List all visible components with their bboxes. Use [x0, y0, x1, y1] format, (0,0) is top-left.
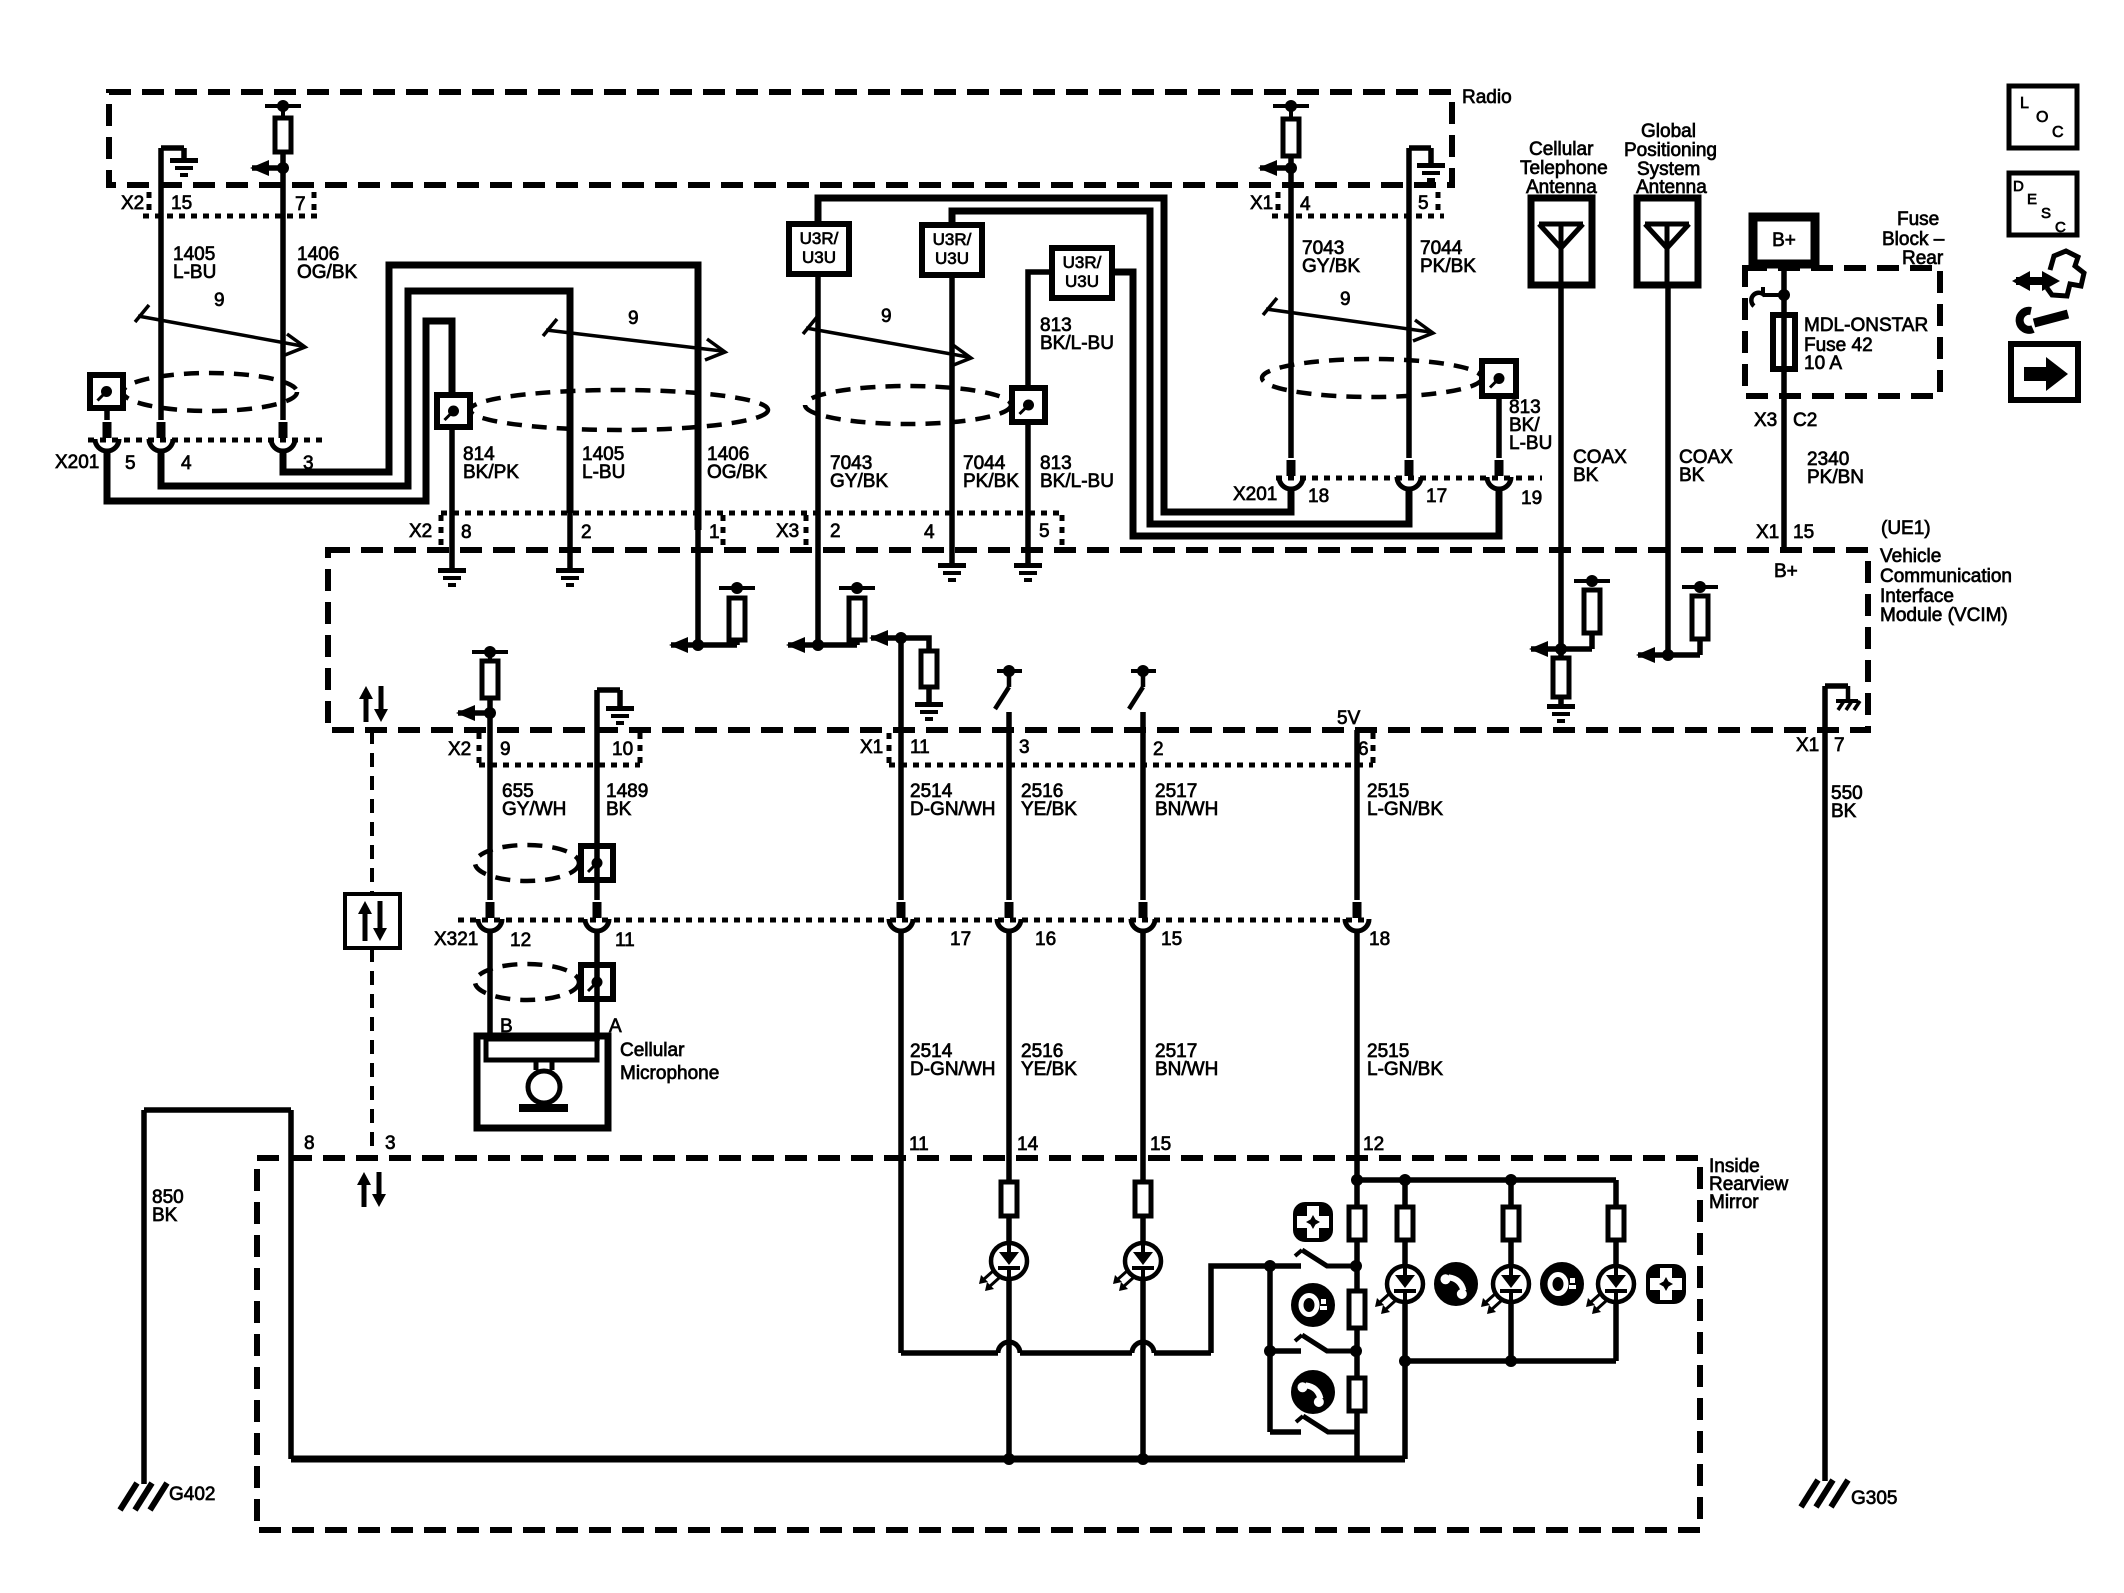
svg-text:O: O	[2036, 109, 2048, 126]
svg-text:X3: X3	[1754, 410, 1777, 431]
svg-text:D: D	[2013, 178, 2024, 195]
svg-text:U3R/: U3R/	[933, 230, 972, 249]
svg-text:Telephone: Telephone	[1520, 158, 1608, 179]
svg-text:17: 17	[950, 929, 971, 950]
svg-text:BK: BK	[152, 1205, 178, 1226]
svg-text:U3U: U3U	[935, 249, 969, 268]
svg-text:19: 19	[1521, 488, 1542, 509]
svg-text:Mirror: Mirror	[1709, 1192, 1759, 1213]
svg-text:5: 5	[125, 453, 136, 474]
svg-text:X1: X1	[860, 737, 883, 758]
svg-text:14: 14	[1017, 1134, 1039, 1155]
svg-text:Positioning: Positioning	[1624, 140, 1717, 161]
svg-text:1: 1	[709, 522, 720, 543]
svg-text:Rear: Rear	[1902, 248, 1944, 269]
svg-text:7: 7	[1834, 735, 1845, 756]
svg-text:D-GN/WH: D-GN/WH	[910, 1059, 995, 1080]
svg-text:GY/WH: GY/WH	[502, 799, 566, 820]
svg-text:BK/PK: BK/PK	[463, 462, 519, 483]
svg-text:Cellular: Cellular	[1529, 139, 1594, 160]
svg-text:9: 9	[500, 739, 511, 760]
svg-text:10 A: 10 A	[1804, 353, 1842, 374]
svg-text:5V: 5V	[1337, 708, 1361, 729]
svg-text:7: 7	[295, 194, 306, 215]
svg-text:4: 4	[181, 453, 192, 474]
svg-text:X1: X1	[1250, 193, 1273, 214]
svg-text:BK: BK	[606, 799, 632, 820]
svg-text:X2: X2	[409, 521, 432, 542]
svg-text:Interface: Interface	[1880, 586, 1954, 607]
svg-text:(UE1): (UE1)	[1881, 518, 1931, 539]
svg-text:C: C	[2055, 219, 2066, 236]
svg-text:Vehicle: Vehicle	[1880, 546, 1941, 567]
svg-text:G402: G402	[169, 1484, 215, 1505]
svg-text:9: 9	[881, 306, 892, 327]
svg-text:9: 9	[628, 308, 639, 329]
svg-text:BK: BK	[1831, 801, 1857, 822]
svg-text:X2: X2	[121, 193, 144, 214]
svg-text:S: S	[2041, 205, 2051, 222]
svg-text:OG/BK: OG/BK	[297, 262, 358, 283]
svg-text:YE/BK: YE/BK	[1021, 799, 1077, 820]
svg-text:18: 18	[1369, 929, 1390, 950]
svg-text:GY/BK: GY/BK	[830, 471, 888, 492]
svg-text:X1: X1	[1796, 735, 1819, 756]
svg-text:5: 5	[1039, 521, 1050, 542]
svg-text:11: 11	[910, 737, 930, 758]
svg-text:L-BU: L-BU	[1509, 433, 1552, 454]
svg-text:10: 10	[612, 739, 633, 760]
svg-text:15: 15	[1793, 522, 1814, 543]
svg-text:Fuse: Fuse	[1897, 209, 1939, 230]
svg-text:4: 4	[924, 522, 935, 543]
svg-text:BN/WH: BN/WH	[1155, 799, 1218, 820]
svg-text:3: 3	[1019, 737, 1030, 758]
svg-text:L: L	[2020, 95, 2029, 112]
svg-text:2: 2	[1153, 739, 1164, 760]
svg-text:3: 3	[303, 453, 314, 474]
svg-text:U3R/: U3R/	[1063, 253, 1102, 272]
svg-text:L-BU: L-BU	[173, 262, 216, 283]
svg-text:16: 16	[1035, 929, 1056, 950]
svg-text:L-GN/BK: L-GN/BK	[1367, 799, 1443, 820]
svg-text:12: 12	[510, 930, 531, 951]
svg-text:B+: B+	[1772, 230, 1796, 251]
svg-text:15: 15	[1150, 1134, 1171, 1155]
svg-text:X2: X2	[448, 739, 471, 760]
svg-text:GY/BK: GY/BK	[1302, 256, 1360, 277]
svg-text:YE/BK: YE/BK	[1021, 1059, 1077, 1080]
svg-text:U3U: U3U	[1065, 272, 1099, 291]
svg-text:OG/BK: OG/BK	[707, 462, 768, 483]
svg-text:D-GN/WH: D-GN/WH	[910, 799, 995, 820]
svg-text:BK/L-BU: BK/L-BU	[1040, 333, 1114, 354]
svg-text:8: 8	[304, 1133, 315, 1154]
svg-text:Microphone: Microphone	[620, 1063, 719, 1084]
svg-text:L-GN/BK: L-GN/BK	[1367, 1059, 1443, 1080]
svg-text:18: 18	[1308, 486, 1329, 507]
svg-text:4: 4	[1300, 194, 1311, 215]
svg-text:BN/WH: BN/WH	[1155, 1059, 1218, 1080]
svg-text:15: 15	[171, 193, 192, 214]
svg-text:11: 11	[615, 930, 635, 951]
svg-text:X201: X201	[1233, 484, 1277, 505]
svg-text:B+: B+	[1774, 561, 1798, 582]
svg-text:PK/BK: PK/BK	[963, 471, 1019, 492]
svg-text:Global: Global	[1641, 121, 1696, 142]
svg-text:12: 12	[1363, 1134, 1384, 1155]
svg-text:BK: BK	[1573, 465, 1599, 486]
svg-text:Radio: Radio	[1462, 87, 1512, 108]
svg-text:G305: G305	[1851, 1488, 1897, 1509]
svg-text:6: 6	[1358, 739, 1369, 760]
svg-text:L-BU: L-BU	[582, 462, 625, 483]
svg-text:11: 11	[909, 1134, 929, 1155]
svg-text:Block –: Block –	[1882, 229, 1945, 250]
svg-text:2: 2	[830, 521, 841, 542]
svg-text:X201: X201	[55, 452, 99, 473]
svg-text:17: 17	[1426, 486, 1447, 507]
svg-text:BK: BK	[1679, 465, 1705, 486]
svg-text:PK/BN: PK/BN	[1807, 467, 1864, 488]
svg-text:9: 9	[1340, 289, 1351, 310]
svg-text:MDL-ONSTAR: MDL-ONSTAR	[1804, 315, 1928, 336]
svg-text:Cellular: Cellular	[620, 1040, 685, 1061]
svg-text:X321: X321	[434, 929, 478, 950]
svg-text:8: 8	[461, 522, 472, 543]
svg-text:U3U: U3U	[802, 248, 836, 267]
svg-text:2: 2	[581, 522, 592, 543]
svg-text:15: 15	[1161, 929, 1182, 950]
svg-text:Communication: Communication	[1880, 566, 2012, 587]
svg-text:X1: X1	[1756, 522, 1779, 543]
svg-text:BK/L-BU: BK/L-BU	[1040, 471, 1114, 492]
svg-text:PK/BK: PK/BK	[1420, 256, 1476, 277]
svg-text:Module (VCIM): Module (VCIM)	[1880, 605, 2008, 626]
svg-text:9: 9	[214, 290, 225, 311]
svg-text:X3: X3	[776, 521, 799, 542]
svg-text:U3R/: U3R/	[800, 229, 839, 248]
svg-text:5: 5	[1418, 193, 1429, 214]
svg-text:C: C	[2052, 124, 2064, 141]
svg-text:C2: C2	[1793, 410, 1817, 431]
svg-text:3: 3	[385, 1133, 396, 1154]
svg-text:E: E	[2027, 191, 2037, 208]
